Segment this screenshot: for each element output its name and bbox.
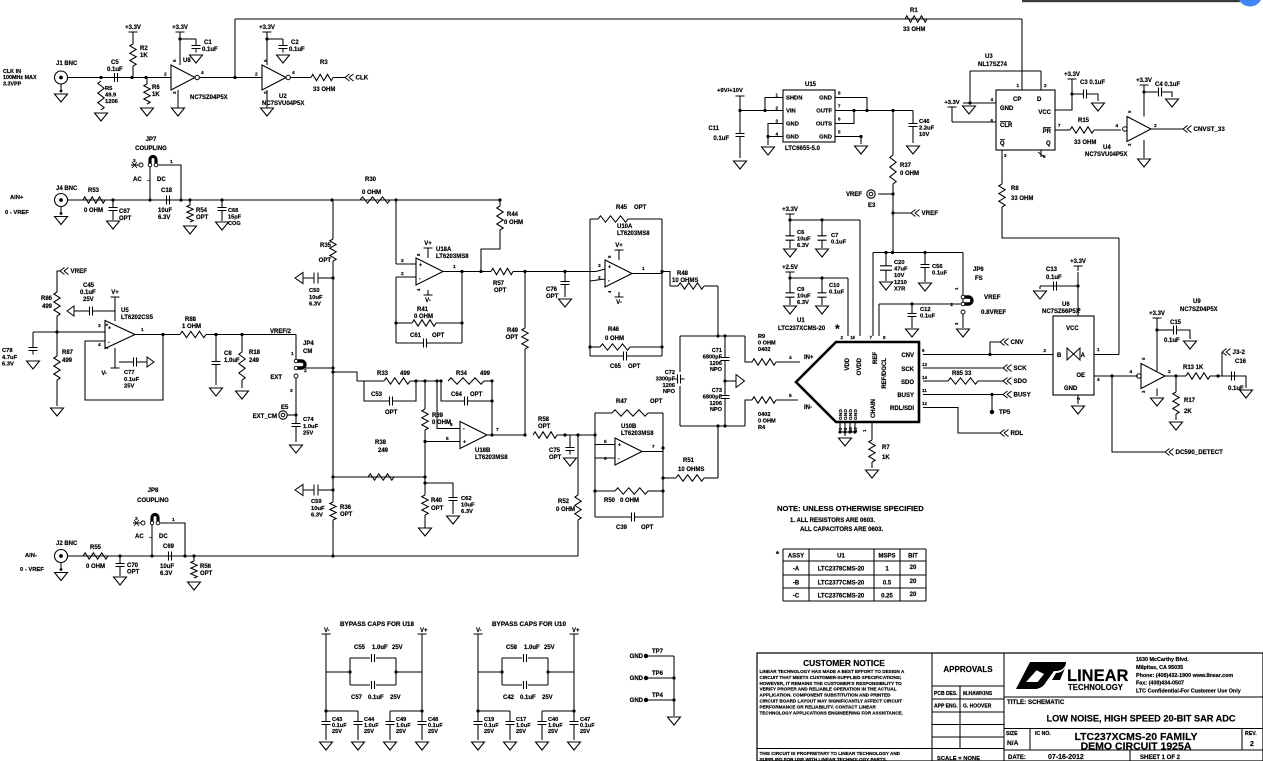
svg-text:OPT: OPT xyxy=(385,410,398,416)
svg-text:C56: C56 xyxy=(932,264,943,270)
svg-text:25V: 25V xyxy=(484,729,494,735)
svg-text:Milpitas, CA 95035: Milpitas, CA 95035 xyxy=(1136,665,1183,671)
svg-text:VREF: VREF xyxy=(846,192,862,198)
svg-text:0.1uF: 0.1uF xyxy=(520,695,536,701)
svg-text:+3.3V: +3.3V xyxy=(782,207,798,213)
svg-text:C53: C53 xyxy=(371,392,383,398)
svg-text:R56: R56 xyxy=(200,564,212,570)
svg-text:IN+: IN+ xyxy=(804,355,814,361)
svg-text:25V: 25V xyxy=(396,729,406,735)
svg-text:COG: COG xyxy=(228,221,241,227)
svg-text:V-: V- xyxy=(101,371,107,377)
svg-text:1: 1 xyxy=(170,159,173,165)
svg-text:2: 2 xyxy=(1043,348,1046,354)
svg-text:U18A: U18A xyxy=(436,247,452,253)
svg-text:MSPS: MSPS xyxy=(878,554,895,560)
svg-text:10uF: 10uF xyxy=(461,503,475,509)
svg-text:15: 15 xyxy=(850,335,855,340)
svg-text:1630 McCarthy Blvd.: 1630 McCarthy Blvd. xyxy=(1136,657,1189,663)
svg-text:6.3V: 6.3V xyxy=(2,362,14,368)
svg-text:0.1uF: 0.1uF xyxy=(932,271,948,277)
svg-text:V-: V- xyxy=(324,628,330,634)
svg-text:C59: C59 xyxy=(311,499,322,505)
svg-text:LTC2376CMS-20: LTC2376CMS-20 xyxy=(818,594,865,600)
svg-text:U4: U4 xyxy=(1103,145,1111,151)
svg-text:V-: V- xyxy=(425,298,431,304)
svg-text:OPT: OPT xyxy=(549,455,562,461)
svg-text:OUTF: OUTF xyxy=(816,109,832,115)
svg-text:C65: C65 xyxy=(610,364,622,370)
svg-text:OPT: OPT xyxy=(641,525,654,531)
svg-text:2: 2 xyxy=(1154,123,1157,129)
svg-text:OUTS: OUTS xyxy=(816,122,832,128)
svg-text:20: 20 xyxy=(910,565,917,571)
svg-text:4.7uF: 4.7uF xyxy=(2,355,18,361)
svg-text:OPT: OPT xyxy=(546,294,559,300)
svg-text:1210: 1210 xyxy=(894,280,907,286)
svg-text:25V: 25V xyxy=(332,729,342,735)
svg-text:V-: V- xyxy=(616,300,622,306)
svg-text:C57: C57 xyxy=(351,695,363,701)
svg-text:R40: R40 xyxy=(431,498,443,504)
svg-text:BUSY: BUSY xyxy=(1014,392,1032,399)
svg-text:+: + xyxy=(618,443,621,449)
svg-text:R41: R41 xyxy=(417,307,429,313)
svg-text:6: 6 xyxy=(604,456,607,462)
svg-text:LT6203MS8: LT6203MS8 xyxy=(621,431,654,437)
svg-text:EXT: EXT xyxy=(270,375,282,381)
svg-text:SDO: SDO xyxy=(901,380,914,386)
svg-text:J4 BNC: J4 BNC xyxy=(56,186,78,192)
svg-text:C50: C50 xyxy=(309,288,320,294)
svg-text:J1 BNC: J1 BNC xyxy=(56,61,78,67)
svg-text:R36: R36 xyxy=(340,505,352,511)
svg-text:TITLE: SCHEMATIC: TITLE: SCHEMATIC xyxy=(1007,699,1065,706)
svg-text:R45: R45 xyxy=(616,205,628,211)
svg-text:+9V/+10V: +9V/+10V xyxy=(717,88,743,94)
svg-text:R54: R54 xyxy=(196,208,208,214)
svg-text:R46: R46 xyxy=(608,327,620,333)
svg-text:GND: GND xyxy=(786,135,799,141)
svg-text:0.1uF: 0.1uF xyxy=(713,136,729,142)
svg-text:+: + xyxy=(608,265,611,271)
svg-text:OPT: OPT xyxy=(196,215,209,221)
svg-text:0 OHM: 0 OHM xyxy=(620,498,639,504)
svg-text:U2: U2 xyxy=(279,94,287,100)
svg-text:U5: U5 xyxy=(121,308,129,314)
svg-text:0.1uF: 0.1uF xyxy=(1228,386,1244,392)
svg-text:0 OHM: 0 OHM xyxy=(900,171,919,177)
svg-text:GND: GND xyxy=(630,698,644,704)
svg-text:0.1uF: 0.1uF xyxy=(289,47,305,53)
svg-text:R57: R57 xyxy=(493,281,505,287)
svg-text:+3.3V: +3.3V xyxy=(125,25,141,31)
svg-text:R9: R9 xyxy=(758,334,765,340)
svg-text:U1: U1 xyxy=(797,318,805,324)
svg-text:R85 33: R85 33 xyxy=(952,371,972,377)
svg-text:C15: C15 xyxy=(1170,320,1182,326)
svg-text:0 OHM: 0 OHM xyxy=(414,314,433,320)
svg-text:SIZE: SIZE xyxy=(1006,731,1018,737)
svg-text:VREF: VREF xyxy=(922,210,939,217)
svg-text:R48: R48 xyxy=(677,271,689,277)
svg-text:0 OHM: 0 OHM xyxy=(556,507,575,513)
svg-text:CLK IN: CLK IN xyxy=(3,69,21,75)
svg-text:2: 2 xyxy=(1250,741,1254,748)
svg-text:33 OHM: 33 OHM xyxy=(313,87,335,93)
svg-text:JP8: JP8 xyxy=(148,488,159,494)
svg-text:6.3V: 6.3V xyxy=(461,509,473,515)
svg-text:R87: R87 xyxy=(62,350,74,356)
svg-text:C2: C2 xyxy=(291,40,299,46)
svg-text:VREF: VREF xyxy=(984,294,1001,301)
svg-text:25V: 25V xyxy=(124,384,134,390)
svg-text:APPLICATION. COMPONENT SUBSTI: APPLICATION. COMPONENT SUBSTITUTION AND … xyxy=(760,693,892,698)
svg-text:OPT: OPT xyxy=(119,216,132,222)
svg-text:NPO: NPO xyxy=(663,389,676,395)
svg-text:R51: R51 xyxy=(683,458,695,464)
svg-text:VCC: VCC xyxy=(1066,326,1079,332)
svg-text:R47: R47 xyxy=(616,399,628,405)
svg-text:1: 1 xyxy=(642,266,645,272)
svg-text:RDL: RDL xyxy=(1011,430,1024,437)
svg-text:+3.3V: +3.3V xyxy=(172,25,188,31)
svg-text:OPT: OPT xyxy=(634,205,647,211)
svg-text:C11: C11 xyxy=(708,126,719,132)
svg-text:25V: 25V xyxy=(544,645,555,651)
svg-text:APP ENG.: APP ENG. xyxy=(934,704,958,710)
svg-text:3: 3 xyxy=(401,258,404,264)
svg-text:ALL CAPACITORS ARE 0603.: ALL CAPACITORS ARE 0603. xyxy=(800,527,883,533)
svg-text:SCK: SCK xyxy=(901,367,914,373)
svg-text:0.1uF: 0.1uF xyxy=(1046,275,1062,281)
svg-text:C4 0.1uF: C4 0.1uF xyxy=(1155,82,1180,88)
svg-text:SDO: SDO xyxy=(1014,378,1028,385)
svg-text:LT6203MS8: LT6203MS8 xyxy=(436,254,469,260)
svg-text:10uF: 10uF xyxy=(158,208,172,214)
svg-text:C6: C6 xyxy=(797,230,805,236)
svg-text:+3.3V: +3.3V xyxy=(1136,78,1152,84)
svg-text:COUPLING: COUPLING xyxy=(135,146,167,152)
svg-text:0 OHM: 0 OHM xyxy=(504,220,523,226)
svg-text:CIRCUIT THAT MEETS CUSTOMER-SU: CIRCUIT THAT MEETS CUSTOMER-SUPPLIED SPE… xyxy=(760,675,902,680)
svg-text:DEMO CIRCUIT 1925A: DEMO CIRCUIT 1925A xyxy=(1081,741,1192,753)
svg-text:4: 4 xyxy=(789,355,792,361)
svg-text:R49: R49 xyxy=(507,328,519,334)
svg-text:X7R: X7R xyxy=(894,286,906,292)
svg-text:GND: GND xyxy=(1064,386,1078,392)
svg-text:LTC Confidential-For Customer: LTC Confidential-For Customer Use Only xyxy=(1136,689,1241,695)
svg-text:CLK: CLK xyxy=(356,75,369,82)
svg-text:R53: R53 xyxy=(88,188,100,194)
svg-text:+3.3V: +3.3V xyxy=(1070,259,1086,265)
svg-text:CLR: CLR xyxy=(1000,123,1013,129)
svg-text:R6: R6 xyxy=(152,85,160,91)
svg-text:OVDD: OVDD xyxy=(857,357,863,375)
svg-text:OPT: OPT xyxy=(200,571,213,577)
svg-text:OPT: OPT xyxy=(127,570,140,576)
svg-text:R4: R4 xyxy=(758,425,766,431)
svg-text:0.5: 0.5 xyxy=(883,581,892,587)
svg-text:LTC6655-5.0: LTC6655-5.0 xyxy=(785,146,821,152)
svg-text:+: + xyxy=(419,263,422,269)
svg-text:JP7: JP7 xyxy=(146,137,157,143)
svg-text:499: 499 xyxy=(62,358,73,364)
svg-text:5: 5 xyxy=(789,393,792,399)
svg-text:U15: U15 xyxy=(805,82,817,88)
svg-text:0 - VREF: 0 - VREF xyxy=(20,567,44,573)
svg-text:U6: U6 xyxy=(1062,302,1070,308)
svg-text:NC7SZ04P5X: NC7SZ04P5X xyxy=(190,95,228,101)
svg-text:CNV: CNV xyxy=(1011,339,1025,346)
svg-text:1.0uF: 1.0uF xyxy=(224,358,240,364)
svg-text:C13: C13 xyxy=(1046,267,1058,273)
svg-text:25V: 25V xyxy=(428,729,438,735)
svg-text:R5: R5 xyxy=(105,86,113,92)
svg-text:*: * xyxy=(835,322,840,336)
svg-text:SHEET 1 OF 2: SHEET 1 OF 2 xyxy=(1140,755,1181,761)
svg-text:U9: U9 xyxy=(1193,299,1201,305)
svg-text:+3.3V: +3.3V xyxy=(1149,311,1165,317)
svg-text:AC: AC xyxy=(133,177,142,183)
svg-text:C5: C5 xyxy=(111,60,119,66)
svg-text:V+: V+ xyxy=(111,290,119,296)
svg-text:U10B: U10B xyxy=(621,424,637,430)
svg-text:R30: R30 xyxy=(365,177,377,183)
svg-text:CUSTOMER NOTICE: CUSTOMER NOTICE xyxy=(803,658,885,668)
svg-text:NC7SVU04P5X: NC7SVU04P5X xyxy=(262,101,304,107)
svg-text:REF: REF xyxy=(873,352,879,364)
svg-text:U3: U3 xyxy=(985,54,993,60)
svg-text:+: + xyxy=(463,440,466,446)
svg-text:LTC2378CMS-20: LTC2378CMS-20 xyxy=(818,567,865,573)
svg-text:V-: V- xyxy=(476,628,482,634)
svg-text:OPT: OPT xyxy=(494,288,507,294)
svg-text:GND: GND xyxy=(853,409,859,420)
svg-text:R39: R39 xyxy=(432,413,444,419)
svg-text:0.1uF: 0.1uF xyxy=(829,290,845,296)
svg-text:10V: 10V xyxy=(894,273,904,279)
svg-text:3: 3 xyxy=(135,516,138,522)
svg-text:JP6: JP6 xyxy=(973,267,984,273)
svg-text:REF/DGCL: REF/DGCL xyxy=(882,358,888,389)
svg-text:33 OHM: 33 OHM xyxy=(903,27,925,33)
svg-text:PERFORMANCE OR RELIABILITY. C: PERFORMANCE OR RELIABILITY. CONTACT LINE… xyxy=(760,704,877,709)
svg-text:C77: C77 xyxy=(124,370,135,376)
svg-text:+3.3V: +3.3V xyxy=(1064,72,1080,78)
svg-text:2: 2 xyxy=(304,368,307,374)
svg-text:BUSY: BUSY xyxy=(897,393,914,399)
svg-text:2: 2 xyxy=(950,302,953,308)
svg-text:C55: C55 xyxy=(354,645,366,651)
svg-text:C69: C69 xyxy=(163,544,175,550)
svg-text:E5: E5 xyxy=(281,405,289,411)
svg-text:0.1uF: 0.1uF xyxy=(920,314,936,320)
svg-text:C62: C62 xyxy=(461,496,472,502)
svg-text:2: 2 xyxy=(255,72,258,78)
svg-text:25V: 25V xyxy=(548,729,558,735)
svg-text:20: 20 xyxy=(910,592,917,598)
svg-text:2: 2 xyxy=(401,271,404,277)
svg-text:C12: C12 xyxy=(920,307,931,313)
svg-text:10 OHMS: 10 OHMS xyxy=(678,467,704,473)
svg-text:SCK: SCK xyxy=(1014,365,1028,372)
svg-text:SUPPLIED FOR USE WITH LINEAR T: SUPPLIED FOR USE WITH LINEAR TECHNOLOGY … xyxy=(760,757,887,761)
svg-text:6800pF: 6800pF xyxy=(703,354,723,360)
svg-text:1: 1 xyxy=(141,327,144,333)
svg-text:0 OHM: 0 OHM xyxy=(605,336,624,342)
svg-text:R18: R18 xyxy=(249,350,261,356)
svg-text:499: 499 xyxy=(42,304,53,310)
svg-text:6.3V: 6.3V xyxy=(797,300,809,306)
svg-text:NC7SVU04P5X: NC7SVU04P5X xyxy=(1085,152,1127,158)
svg-text:25V: 25V xyxy=(303,431,313,437)
svg-text:SHDN: SHDN xyxy=(786,96,802,102)
svg-text:25V: 25V xyxy=(580,729,590,735)
svg-text:OPT: OPT xyxy=(319,258,332,264)
svg-text:DATE:: DATE: xyxy=(1008,755,1026,761)
svg-text:R8: R8 xyxy=(1011,186,1019,192)
svg-text:NPO: NPO xyxy=(710,367,723,373)
svg-text:Q: Q xyxy=(1046,141,1051,147)
svg-text:R38: R38 xyxy=(375,440,387,446)
svg-text:OPT: OPT xyxy=(538,424,551,430)
svg-text:0 OHM: 0 OHM xyxy=(758,340,776,346)
svg-text:DC: DC xyxy=(157,177,166,183)
svg-text:C68: C68 xyxy=(228,208,238,214)
svg-text:E3: E3 xyxy=(868,203,876,209)
svg-text:APPROVALS: APPROVALS xyxy=(943,665,993,674)
svg-text:499: 499 xyxy=(480,371,491,377)
svg-text:COUPLING: COUPLING xyxy=(137,498,169,504)
svg-text:-B: -B xyxy=(793,581,800,587)
svg-text:LT6203MS8: LT6203MS8 xyxy=(475,455,508,461)
svg-text:4: 4 xyxy=(1129,369,1132,375)
svg-text:-A: -A xyxy=(793,567,800,573)
svg-text:+3.3V: +3.3V xyxy=(259,25,275,31)
svg-text:NC7SZ04P5X: NC7SZ04P5X xyxy=(1180,307,1218,313)
svg-text:1206: 1206 xyxy=(710,361,722,367)
svg-text:C61: C61 xyxy=(410,333,422,339)
svg-text:V+: V+ xyxy=(424,241,432,247)
svg-text:C67: C67 xyxy=(119,209,131,215)
svg-text:0.1uF: 0.1uF xyxy=(1164,338,1180,344)
svg-text:1206: 1206 xyxy=(663,383,675,389)
svg-text:0.1uF: 0.1uF xyxy=(831,240,847,246)
svg-text:M.HAWKINS: M.HAWKINS xyxy=(963,691,993,697)
svg-text:VCC: VCC xyxy=(1038,110,1051,116)
svg-text:OPT: OPT xyxy=(431,506,444,512)
svg-text:12: 12 xyxy=(922,401,928,406)
svg-text:BIT: BIT xyxy=(908,554,918,560)
svg-text:GND: GND xyxy=(630,654,644,660)
svg-text:R37: R37 xyxy=(900,163,912,169)
svg-text:6800pF: 6800pF xyxy=(703,394,723,400)
svg-text:C78: C78 xyxy=(2,348,13,354)
svg-text:5: 5 xyxy=(446,436,449,442)
svg-text:A: A xyxy=(1081,353,1086,359)
svg-text:CNV: CNV xyxy=(901,353,914,359)
svg-text:13: 13 xyxy=(922,362,928,367)
svg-text:6.3V: 6.3V xyxy=(160,571,172,577)
svg-text:499: 499 xyxy=(400,371,411,377)
svg-text:10 OHMS: 10 OHMS xyxy=(672,278,698,284)
svg-text:7: 7 xyxy=(496,427,499,433)
svg-text:4: 4 xyxy=(201,70,204,76)
svg-text:TECHNOLOGY: TECHNOLOGY xyxy=(1068,683,1124,692)
svg-text:1: 1 xyxy=(172,517,175,523)
svg-text:D: D xyxy=(1037,97,1042,103)
svg-text:LTC237XCMS-20: LTC237XCMS-20 xyxy=(778,326,826,332)
svg-text:EXT_CM: EXT_CM xyxy=(253,414,277,420)
svg-text:1: 1 xyxy=(291,351,294,357)
svg-text:14: 14 xyxy=(922,375,928,380)
svg-text:LT6203MS8: LT6203MS8 xyxy=(617,231,650,237)
svg-text:10uF: 10uF xyxy=(797,237,811,243)
svg-text:-C: -C xyxy=(793,594,800,600)
svg-text:1K: 1K xyxy=(140,53,148,59)
svg-text:5: 5 xyxy=(604,439,607,445)
svg-text:249: 249 xyxy=(249,358,260,364)
svg-text:0.8VREF: 0.8VREF xyxy=(981,309,1006,316)
svg-text:G. HOOVER: G. HOOVER xyxy=(963,704,992,710)
svg-text:JP4: JP4 xyxy=(303,341,314,347)
svg-text:C45: C45 xyxy=(83,283,95,289)
svg-text:0 OHM: 0 OHM xyxy=(758,418,776,424)
svg-text:3300pF: 3300pF xyxy=(656,376,676,382)
svg-text:IC NO.: IC NO. xyxy=(1035,731,1051,737)
svg-text:OPT: OPT xyxy=(628,364,641,370)
svg-text:0 OHM: 0 OHM xyxy=(432,420,451,426)
svg-text:V+: V+ xyxy=(420,628,428,634)
svg-text:1.0uF: 1.0uF xyxy=(372,645,388,651)
svg-text:J3-2: J3-2 xyxy=(1233,349,1246,356)
svg-text:NPO: NPO xyxy=(710,407,723,413)
svg-text:CNVST_33: CNVST_33 xyxy=(1194,126,1226,133)
svg-text:AIN-: AIN- xyxy=(25,553,37,559)
svg-text:NC7SZ66P5X: NC7SZ66P5X xyxy=(1042,309,1080,315)
svg-text:CM: CM xyxy=(303,349,312,355)
svg-text:THIS CIRCUIT IS PROPRIETARY TO: THIS CIRCUIT IS PROPRIETARY TO LINEAR TE… xyxy=(760,751,901,756)
svg-text:3: 3 xyxy=(598,263,601,269)
svg-text:GND: GND xyxy=(630,676,644,682)
svg-text:R2: R2 xyxy=(140,46,148,52)
svg-text:BYPASS CAPS FOR U18: BYPASS CAPS FOR U18 xyxy=(340,621,415,628)
svg-text:C1: C1 xyxy=(204,40,212,46)
svg-text:Fax: (408)434-0507: Fax: (408)434-0507 xyxy=(1136,681,1184,687)
svg-text:+2.5V: +2.5V xyxy=(782,265,798,271)
svg-text:33 OHM: 33 OHM xyxy=(1074,140,1096,146)
svg-text:C64: C64 xyxy=(451,392,463,398)
svg-text:10V: 10V xyxy=(919,132,929,138)
svg-text:R35: R35 xyxy=(320,243,332,249)
svg-text:25V: 25V xyxy=(364,729,374,735)
svg-text:R34: R34 xyxy=(456,371,468,377)
svg-text:249: 249 xyxy=(378,448,389,454)
svg-text:1.0uF: 1.0uF xyxy=(303,424,319,430)
svg-text:TP4: TP4 xyxy=(652,693,664,699)
svg-text:TP7: TP7 xyxy=(652,649,664,655)
svg-text:V+: V+ xyxy=(615,243,623,249)
svg-text:V+: V+ xyxy=(572,628,580,634)
svg-text:GND: GND xyxy=(819,135,832,141)
svg-text:VERIFY PROPER AND RELIABLE OPE: VERIFY PROPER AND RELIABLE OPERATION IN … xyxy=(760,687,897,692)
svg-text:C46: C46 xyxy=(919,119,930,125)
svg-text:C73: C73 xyxy=(712,388,722,394)
svg-text:OPT: OPT xyxy=(506,335,519,341)
svg-text:6.3V: 6.3V xyxy=(311,513,323,519)
svg-text:R13 1K: R13 1K xyxy=(1183,365,1204,371)
